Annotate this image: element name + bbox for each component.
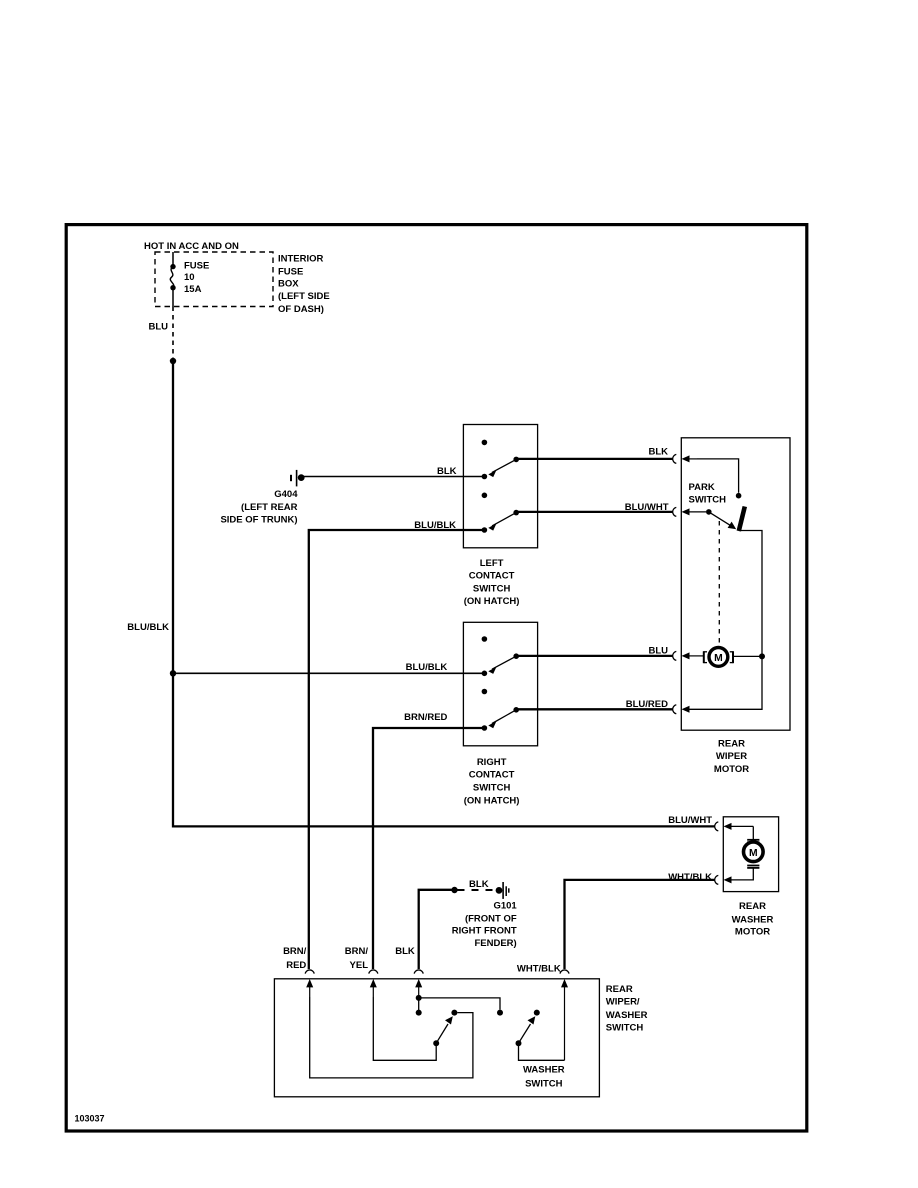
connector: WHT/BLK into switch (560, 970, 569, 1060)
svg-text:10: 10 (184, 272, 195, 283)
wire: hot feed into fuse (172, 252, 174, 267)
svg-text:G101: G101 (493, 900, 517, 911)
wire: park switch to right rail (739, 531, 762, 654)
left contact switch box (463, 425, 537, 548)
svg-text:YEL: YEL (350, 960, 369, 971)
svg-text:SWITCH: SWITCH (525, 1078, 563, 1089)
svg-text:BLU/BLK: BLU/BLK (414, 520, 456, 531)
svg-text:103037: 103037 (75, 1114, 105, 1124)
motor M (rear wiper) (703, 648, 733, 667)
wire: motor down to WHT/BLK connector (731, 868, 753, 880)
wire: motor to right rail (732, 655, 762, 657)
svg-text:WASHER: WASHER (606, 1010, 648, 1021)
connector: BRN/YEL into switch (369, 970, 378, 997)
svg-text:BRN/: BRN/ (345, 946, 369, 957)
wire: BRN/YEL to wiper switch pole (373, 997, 436, 1060)
node: BLK contact (left) (416, 1010, 422, 1016)
svg-text:REAR: REAR (739, 901, 766, 912)
wire: washer pole to WHT/BLK (519, 1046, 565, 1060)
wire BLU/WHT exit to park switch (516, 511, 672, 513)
node: BLU/BLK junction (170, 670, 176, 676)
wire: BRN/RED to wiper switch contact (310, 997, 473, 1078)
wire BLK dashed to G101 (458, 889, 496, 891)
wire BLK from G404 to left contact switch (302, 476, 485, 478)
left contact switch: switch 2 pole and arm (482, 510, 519, 533)
svg-text:BRN/: BRN/ (283, 946, 307, 957)
wire: BLK branch to washer side contact (419, 998, 500, 1010)
svg-text:WHT/BLK: WHT/BLK (668, 872, 712, 883)
svg-text:BLU/RED: BLU/RED (626, 699, 668, 710)
svg-text:(LEFT REAR: (LEFT REAR (241, 502, 298, 513)
svg-text:SWITCH: SWITCH (689, 495, 727, 506)
wire BLK exit to rear wiper motor (516, 458, 672, 460)
node: park switch fixed contact (736, 493, 742, 499)
svg-text:FUSE: FUSE (278, 267, 303, 278)
park switch arm with arrow (709, 512, 736, 529)
right contact switch box (463, 622, 537, 746)
svg-text:15A: 15A (184, 284, 202, 295)
wire BLU/WHT to rear washer motor (173, 825, 715, 827)
svg-text:WASHER: WASHER (732, 914, 774, 925)
svg-text:BLK: BLK (395, 946, 415, 957)
connector: BLU/RED into rear wiper motor (673, 705, 690, 714)
svg-text:BRN/RED: BRN/RED (404, 712, 447, 723)
svg-text:WIPER/: WIPER/ (606, 997, 640, 1008)
svg-text:M: M (749, 847, 758, 859)
right contact switch: upper fixed contact (482, 636, 488, 642)
node: right rail junction (759, 653, 765, 659)
right contact switch: switch 2 pole and arm (482, 707, 519, 731)
node: BLK junction (416, 995, 422, 1001)
left contact switch: lower fixed contact (482, 493, 488, 499)
svg-text:BLU: BLU (148, 322, 168, 333)
right contact switch: switch 1 pole and arm (482, 653, 519, 676)
connector: BLK into rear wiper motor (673, 454, 697, 463)
fuse 10 15A (170, 264, 175, 291)
svg-text:BOX: BOX (278, 279, 299, 290)
rear washer motor box (723, 817, 778, 892)
connector: BLU/WHT into rear washer motor (715, 822, 754, 831)
wire BLK from switch up to G101 splice (419, 890, 452, 969)
svg-text:HOT IN ACC AND ON: HOT IN ACC AND ON (144, 241, 239, 252)
svg-text:(ON HATCH): (ON HATCH) (464, 596, 520, 607)
svg-text:REAR: REAR (606, 984, 633, 995)
svg-text:MOTOR: MOTOR (714, 764, 749, 775)
svg-text:BLU/WHT: BLU/WHT (625, 502, 669, 513)
mechanical linkage (dashed) (718, 521, 720, 645)
wire: right rail down to BLU/RED connector (689, 656, 762, 709)
svg-text:FUSE: FUSE (184, 261, 209, 272)
node: BLK contact (washer side) (497, 1010, 503, 1016)
wire: connector down to motor (752, 826, 754, 839)
svg-text:RIGHT FRONT: RIGHT FRONT (452, 926, 517, 937)
svg-text:CONTACT: CONTACT (469, 570, 515, 581)
node: wiper switch pole (433, 1040, 439, 1046)
svg-text:FENDER): FENDER) (474, 938, 516, 949)
wire BRN/RED from right contact switch down (373, 728, 484, 969)
svg-text:OF DASH): OF DASH) (278, 304, 324, 315)
connector: BLU into rear wiper motor (673, 651, 705, 660)
svg-text:RIGHT: RIGHT (477, 757, 507, 768)
svg-text:BLK: BLK (648, 447, 668, 458)
node: BLK splice (451, 887, 457, 893)
rear wiper/washer switch box (274, 979, 599, 1097)
node: washer switch throw contact (534, 1010, 540, 1016)
svg-text:BLU/BLK: BLU/BLK (406, 662, 448, 673)
connector: BRN/RED into switch (305, 970, 314, 997)
ground G404 (291, 470, 305, 487)
svg-text:INTERIOR: INTERIOR (278, 254, 324, 265)
connector: BLU/WHT into rear wiper motor (673, 507, 706, 516)
connector: BLK into switch (414, 970, 423, 995)
svg-text:WIPER: WIPER (716, 751, 747, 762)
svg-text:BLU: BLU (648, 645, 668, 656)
svg-text:CONTACT: CONTACT (469, 770, 515, 781)
node: splice below fuse (170, 358, 176, 364)
svg-text:REAR: REAR (718, 738, 745, 749)
svg-text:BLU/WHT: BLU/WHT (668, 815, 712, 826)
wire: park switch upper contact (697, 459, 739, 493)
interior fuse box (dashed outline) (155, 252, 273, 307)
wiper switch arm with arrow (436, 1016, 453, 1043)
wire: BLK into contacts (418, 995, 420, 1010)
svg-text:LEFT: LEFT (480, 558, 504, 569)
wire BLU/BLK from left contact switch down to switch (309, 530, 485, 969)
svg-text:SIDE OF TRUNK): SIDE OF TRUNK) (220, 514, 297, 525)
node: wiper switch throw contact (451, 1010, 457, 1016)
svg-text:M: M (714, 652, 723, 664)
wire WHT/BLK from washer motor down to switch (565, 880, 715, 969)
left contact switch: upper fixed contact (482, 440, 488, 446)
svg-text:(LEFT SIDE: (LEFT SIDE (278, 291, 330, 302)
wire BLU/BLK branch to right contact switch (173, 672, 484, 674)
rear wiper motor box (681, 438, 790, 730)
left contact switch: switch 1 pole and arm (482, 457, 519, 480)
svg-text:SWITCH: SWITCH (473, 583, 511, 594)
svg-text:WHT/BLK: WHT/BLK (517, 964, 561, 975)
motor M (rear washer) (744, 840, 764, 868)
park switch pole (706, 509, 712, 515)
svg-text:PARK: PARK (689, 482, 715, 493)
svg-text:WASHER: WASHER (523, 1065, 565, 1076)
svg-text:SWITCH: SWITCH (473, 783, 511, 794)
svg-text:MOTOR: MOTOR (735, 927, 770, 938)
ground G101 (496, 882, 509, 899)
right contact switch: lower fixed contact (482, 689, 488, 695)
svg-text:SWITCH: SWITCH (606, 1022, 644, 1033)
svg-text:(FRONT OF: (FRONT OF (465, 913, 517, 924)
wire BLU/BLK main vertical (172, 361, 174, 828)
wire BLU/RED exit to rear wiper motor (516, 708, 672, 710)
svg-text:BLK: BLK (469, 879, 489, 890)
washer switch arm with arrow (519, 1016, 536, 1043)
park switch blade (thick) (739, 507, 745, 532)
connector: WHT/BLK into rear washer motor (715, 875, 732, 884)
wire BLU exit to rear wiper motor (516, 655, 672, 657)
svg-text:(ON HATCH): (ON HATCH) (464, 795, 520, 806)
wire BLU (dashed) (172, 307, 174, 362)
wire: fuse to box edge (172, 288, 174, 307)
svg-text:BLU/BLK: BLU/BLK (127, 622, 169, 633)
node: washer switch pole (516, 1040, 522, 1046)
svg-text:RED: RED (286, 960, 306, 971)
svg-text:BLK: BLK (437, 466, 457, 477)
svg-text:G404: G404 (274, 489, 298, 500)
